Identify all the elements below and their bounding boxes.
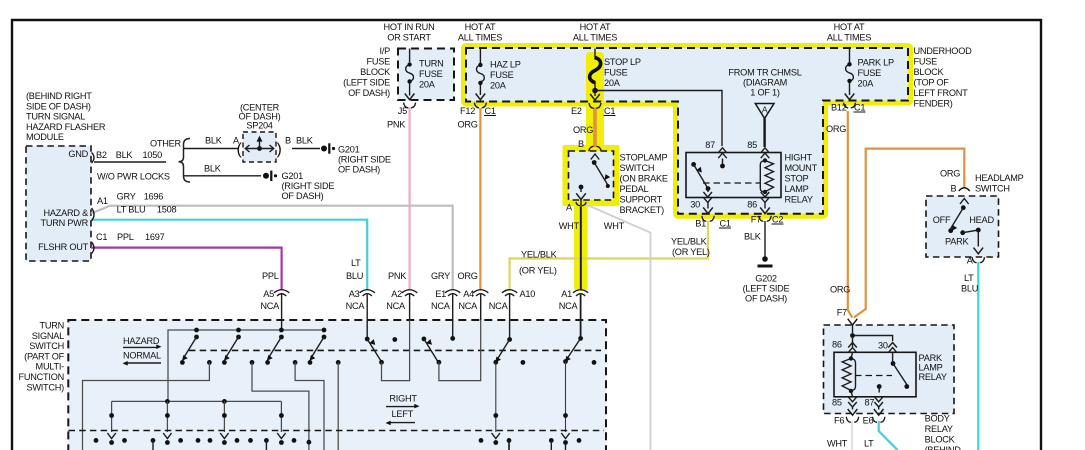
svg-text:STOP LP: STOP LP	[604, 57, 641, 67]
svg-text:FUNCTION: FUNCTION	[19, 372, 64, 382]
park relay pin 87 chevrons and exit	[873, 397, 885, 423]
svg-text:LT: LT	[964, 273, 974, 283]
svg-text:STOPLAMP: STOPLAMP	[620, 153, 668, 163]
svg-text:E1: E1	[435, 289, 446, 299]
svg-text:TURN: TURN	[39, 321, 64, 331]
lower mech dashed line	[69, 430, 605, 432]
svg-text:TURN: TURN	[419, 59, 444, 69]
svg-text:E2: E2	[571, 106, 582, 116]
svg-text:OTHER: OTHER	[150, 139, 182, 149]
svg-text:HEADLAMP: HEADLAMP	[975, 173, 1024, 183]
turn fuse symbol	[405, 49, 415, 100]
svg-text:FUSE: FUSE	[604, 68, 628, 78]
svg-text:SIGNAL: SIGNAL	[32, 331, 64, 341]
svg-text:A3: A3	[349, 289, 360, 299]
svg-text:(PART OF: (PART OF	[24, 351, 64, 361]
svg-text:UNDERHOOD: UNDERHOOD	[914, 46, 973, 56]
svg-text:BLK: BLK	[204, 164, 222, 174]
svg-text:F7: F7	[751, 215, 761, 225]
svg-text:C2: C2	[772, 215, 783, 225]
svg-text:OFF: OFF	[933, 215, 951, 225]
wire WHT stoplamp A diag down	[584, 204, 651, 450]
svg-text:(BEHIND: (BEHIND	[925, 445, 962, 450]
wire stop fuse to relay pin 87	[595, 91, 722, 147]
svg-text:LT: LT	[351, 258, 361, 268]
wire YEL B1 to A10	[510, 221, 708, 291]
svg-text:FUSE: FUSE	[858, 68, 882, 78]
svg-text:(LEFT SIDE: (LEFT SIDE	[743, 284, 790, 294]
svg-text:C1: C1	[96, 232, 107, 242]
svg-text:ORG: ORG	[830, 285, 850, 295]
svg-text:A5: A5	[263, 289, 274, 299]
svg-text:I/P: I/P	[380, 46, 391, 56]
turn selector switch A1	[561, 336, 596, 445]
svg-text:NCA: NCA	[458, 301, 478, 311]
svg-text:ORG: ORG	[458, 120, 478, 130]
relay mech dashed link	[703, 182, 760, 184]
hazard switch 4	[308, 328, 341, 365]
svg-text:A: A	[762, 105, 768, 115]
svg-text:87: 87	[705, 140, 715, 150]
right/left arrows	[386, 404, 420, 425]
hazard mech dashed line	[189, 349, 601, 351]
relay switch contact	[691, 159, 725, 193]
svg-text:HIGHT: HIGHT	[785, 153, 813, 163]
svg-text:A1: A1	[561, 289, 572, 299]
svg-text:ALL TIMES: ALL TIMES	[573, 33, 617, 43]
wire ORG F7 to headlamp switch B	[854, 149, 965, 318]
svg-text:86: 86	[832, 340, 842, 350]
svg-text:F7: F7	[837, 308, 847, 318]
svg-text:PEDAL: PEDAL	[620, 184, 649, 194]
svg-text:ORG: ORG	[940, 169, 960, 179]
headlamp switch internals	[948, 188, 984, 263]
svg-text:NCA: NCA	[431, 301, 451, 311]
svg-text:A4: A4	[463, 289, 474, 299]
from tr chmsl triangle A	[755, 104, 774, 148]
svg-text:FUSE: FUSE	[366, 57, 390, 67]
svg-text:BLK: BLK	[744, 232, 762, 242]
svg-text:NCA: NCA	[386, 301, 406, 311]
svg-text:LEFT FRONT: LEFT FRONT	[914, 88, 969, 98]
svg-text:BLOCK: BLOCK	[360, 67, 391, 77]
svg-text:SWITCH: SWITCH	[29, 341, 64, 351]
svg-text:B: B	[951, 184, 957, 194]
hazard/normal arrows	[123, 344, 162, 365]
bottom contact dots row	[94, 438, 582, 450]
haz lp fuse symbol	[476, 49, 486, 100]
wire WHT stoplamp A to A1 (highlighted)	[580, 200, 582, 291]
svg-text:(RIGHT SIDE: (RIGHT SIDE	[338, 155, 391, 165]
svg-text:SUPPORT: SUPPORT	[620, 195, 663, 205]
svg-text:85: 85	[832, 398, 842, 408]
hazard switch 2	[222, 328, 254, 365]
relay pin 87 chevrons	[718, 148, 727, 158]
svg-text:A1: A1	[97, 196, 108, 206]
svg-text:B: B	[578, 139, 584, 149]
park relay pin 85 chevrons and exit	[846, 397, 858, 423]
wire A1 into turn signal switch	[580, 295, 582, 339]
module GND wire and braces	[94, 139, 335, 183]
svg-text:BLK: BLK	[205, 136, 223, 146]
svg-text:HOT AT: HOT AT	[465, 22, 496, 32]
svg-text:NORMAL: NORMAL	[123, 351, 161, 361]
highlight: stop fuse wire E2 strip	[586, 52, 604, 151]
turn signal switch box	[68, 320, 606, 450]
svg-text:C1: C1	[720, 219, 731, 229]
svg-text:BLU: BLU	[346, 271, 363, 281]
svg-text:J5: J5	[398, 106, 407, 116]
stoplamp switch internals	[576, 146, 610, 205]
connector A10 NCA	[502, 290, 517, 340]
svg-text:BODY: BODY	[925, 414, 950, 424]
module pin brackets	[92, 153, 95, 254]
wire PNK J5 to A2	[409, 108, 411, 291]
svg-text:BLK: BLK	[296, 136, 314, 146]
svg-text:HOT IN RUN: HOT IN RUN	[384, 22, 435, 32]
svg-text:(DIAGRAM: (DIAGRAM	[743, 78, 787, 88]
svg-text:OF DASH): OF DASH)	[348, 88, 390, 98]
svg-text:(OR YEL): (OR YEL)	[672, 247, 710, 257]
svg-text:BLOCK: BLOCK	[914, 67, 945, 77]
svg-text:WHT: WHT	[604, 221, 625, 231]
turn selector switch A3-A2	[365, 320, 410, 381]
svg-text:ORG: ORG	[573, 125, 593, 135]
connector A3 NCA	[360, 290, 375, 339]
svg-text:GRY: GRY	[431, 271, 450, 281]
svg-text:MODULE: MODULE	[26, 132, 64, 142]
svg-text:ORG: ORG	[458, 271, 478, 281]
svg-text:RELAY: RELAY	[785, 195, 813, 205]
relay pin 85 chevrons	[761, 148, 770, 158]
svg-text:OF DASH): OF DASH)	[239, 112, 281, 122]
svg-text:PARK LP: PARK LP	[858, 58, 894, 68]
svg-text:A2: A2	[391, 289, 402, 299]
svg-text:86: 86	[747, 200, 757, 210]
underhood fuse block box dashed border	[466, 48, 908, 214]
park relay switch	[877, 353, 909, 393]
svg-text:NCA: NCA	[346, 301, 366, 311]
wire ORG F12 to A4	[479, 108, 481, 290]
svg-text:PNK: PNK	[387, 120, 406, 130]
svg-text:PPL: PPL	[262, 271, 279, 281]
svg-text:(RIGHT SIDE: (RIGHT SIDE	[282, 181, 335, 191]
svg-text:HEAD: HEAD	[969, 215, 994, 225]
svg-text:ORG: ORG	[826, 124, 846, 134]
wire GRY module to E1	[91, 206, 453, 290]
turn selector switch A10	[492, 337, 526, 445]
svg-text:20A: 20A	[490, 81, 507, 91]
svg-text:HAZARD &: HAZARD &	[44, 208, 89, 218]
svg-text:OF DASH): OF DASH)	[282, 191, 324, 201]
svg-text:MULTI-: MULTI-	[36, 362, 65, 372]
svg-text:FUSE: FUSE	[490, 70, 514, 80]
svg-text:GND: GND	[68, 149, 88, 159]
svg-text:GRY: GRY	[117, 192, 136, 202]
svg-text:1696: 1696	[144, 192, 164, 202]
BLK wire to G202 ground	[758, 221, 773, 268]
svg-text:(ON BRAKE: (ON BRAKE	[620, 174, 668, 184]
svg-text:FROM TR CHMSL: FROM TR CHMSL	[728, 68, 801, 78]
svg-text:PARK: PARK	[945, 237, 969, 247]
relay pin 30 chevrons	[703, 192, 712, 202]
svg-text:TURN SIGNAL: TURN SIGNAL	[26, 112, 85, 122]
splice SP204 box	[243, 132, 276, 162]
connector A2 NCA	[402, 290, 417, 320]
svg-text:B12: B12	[831, 103, 847, 113]
svg-text:ALL TIMES: ALL TIMES	[458, 33, 502, 43]
wire LT BLU headlamp A down	[977, 262, 979, 450]
relay pin30 wire to B1	[702, 203, 714, 222]
svg-text:MOUNT: MOUNT	[785, 163, 818, 173]
svg-text:SWITCH): SWITCH)	[26, 382, 64, 392]
svg-text:B1: B1	[695, 219, 706, 229]
svg-text:BRACKET): BRACKET)	[620, 205, 665, 215]
svg-text:NCA: NCA	[260, 301, 280, 311]
svg-text:STOP: STOP	[785, 174, 809, 184]
svg-text:): )	[277, 141, 282, 158]
connector E1 NCA	[445, 290, 460, 339]
headlamp switch box	[926, 196, 999, 257]
svg-text:C1: C1	[485, 106, 496, 116]
wire LT BLU park relay E6 down	[879, 421, 898, 450]
svg-text:G202: G202	[755, 274, 777, 284]
park relay mech dashed link	[855, 375, 892, 377]
connector J5	[404, 103, 416, 108]
svg-text:B: B	[285, 136, 291, 146]
svg-text:30: 30	[878, 341, 888, 351]
svg-text:LT BLU: LT BLU	[117, 205, 146, 215]
svg-text:ALL TIMES: ALL TIMES	[827, 33, 871, 43]
park lamp relay box (body relay block)	[824, 325, 955, 414]
svg-text:G201: G201	[282, 171, 304, 181]
svg-text:RELAY: RELAY	[919, 372, 947, 382]
svg-text:HOT AT: HOT AT	[580, 22, 611, 32]
underlines for C1/C2 labels	[484, 112, 866, 228]
highlight: fuse band + relay extension (yellow)	[466, 48, 908, 214]
splice SP204 internals	[237, 136, 282, 158]
svg-text:(LEFT SIDE: (LEFT SIDE	[343, 78, 390, 88]
svg-text:SIDE OF DASH): SIDE OF DASH)	[26, 101, 91, 111]
svg-text:SWITCH: SWITCH	[620, 163, 655, 173]
svg-text:WHT: WHT	[827, 439, 848, 449]
wire ORG E2 to stoplamp B (bold)	[593, 108, 597, 148]
svg-text:NCA: NCA	[559, 301, 579, 311]
turn signal hazard flasher module box	[26, 146, 91, 261]
svg-text:30: 30	[690, 200, 700, 210]
svg-text:G201: G201	[338, 145, 360, 155]
hight mount stop lamp relay box	[686, 153, 781, 198]
svg-text:SWITCH: SWITCH	[975, 184, 1010, 194]
svg-text:87: 87	[865, 398, 875, 408]
svg-text:(TOP OF: (TOP OF	[914, 78, 950, 88]
relay pin 86 chevrons	[761, 192, 770, 202]
svg-text:(OR YEL): (OR YEL)	[519, 266, 557, 276]
highlight: stoplamp switch box	[563, 145, 620, 206]
svg-text:20A: 20A	[858, 79, 875, 89]
svg-text:RELAY: RELAY	[925, 424, 953, 434]
svg-text:1050: 1050	[143, 150, 163, 160]
svg-text:1697: 1697	[145, 232, 165, 242]
I/P fuse block (turn fuse) box	[398, 49, 454, 101]
svg-text:FLSHR OUT: FLSHR OUT	[38, 242, 88, 252]
svg-text:PPL: PPL	[117, 232, 134, 242]
svg-text:1 OF 1): 1 OF 1)	[750, 88, 780, 98]
svg-text:E6: E6	[863, 416, 874, 426]
svg-text:FENDER): FENDER)	[914, 99, 953, 109]
svg-text:BLK: BLK	[116, 150, 134, 160]
svg-text:LEFT: LEFT	[392, 409, 414, 419]
svg-text:RIGHT: RIGHT	[389, 394, 417, 404]
svg-text:YEL/BLK: YEL/BLK	[521, 250, 558, 260]
svg-text:HOT AT: HOT AT	[834, 22, 865, 32]
wire LT BLU module to A3	[91, 220, 367, 290]
hazard rail	[168, 330, 324, 401]
svg-text:YEL/BLK: YEL/BLK	[671, 237, 708, 247]
park relay coil	[842, 353, 855, 397]
svg-text:LAMP: LAMP	[785, 184, 809, 194]
connector B12/C1	[844, 103, 856, 108]
park relay inner box	[834, 352, 916, 397]
park lamp relay entry F7	[848, 319, 893, 347]
svg-text:1508: 1508	[157, 205, 177, 215]
svg-text:LT: LT	[864, 439, 874, 449]
svg-text:20A: 20A	[604, 78, 621, 88]
svg-text:HAZARD: HAZARD	[123, 336, 160, 346]
E1 stub	[450, 336, 455, 341]
svg-text:WHT: WHT	[559, 221, 580, 231]
svg-text:F12: F12	[460, 106, 475, 116]
svg-text:B2: B2	[96, 150, 107, 160]
svg-text:OF DASH): OF DASH)	[338, 165, 380, 175]
wire ORG B12 to F7	[848, 111, 852, 318]
svg-text:PNK: PNK	[388, 271, 407, 281]
svg-text:BLOCK: BLOCK	[925, 435, 956, 445]
svg-text:SP204: SP204	[246, 121, 272, 131]
highlight: stoplamp A output wire strip	[574, 198, 588, 291]
svg-text:FUSE: FUSE	[419, 69, 443, 79]
svg-text:HAZARD FLASHER: HAZARD FLASHER	[26, 122, 106, 132]
svg-text:85: 85	[747, 140, 757, 150]
wire PPL module to A5	[91, 248, 282, 290]
park relay pin 30 chevrons	[888, 343, 897, 353]
svg-text:FUSE: FUSE	[914, 57, 938, 67]
svg-text:20A: 20A	[419, 80, 436, 90]
svg-text:OR START: OR START	[387, 33, 431, 43]
contact link wires lower	[83, 362, 210, 450]
wire WHT park relay F6 down	[851, 421, 853, 450]
svg-text:NCA: NCA	[489, 301, 509, 311]
park lp fuse symbol	[845, 49, 855, 100]
svg-text:OF DASH): OF DASH)	[745, 294, 787, 304]
hazard switch 1	[180, 328, 212, 365]
svg-text:C1: C1	[604, 106, 615, 116]
stoplamp switch box (blue)	[569, 151, 614, 200]
connector A5 NCA	[274, 290, 289, 330]
svg-text:LAMP: LAMP	[919, 363, 943, 373]
connector A1 NCA	[573, 290, 588, 296]
hazard switch 3	[265, 328, 297, 365]
bus columns with arrows	[107, 401, 115, 445]
svg-text:TURN PWR: TURN PWR	[40, 218, 88, 228]
svg-text:C1: C1	[854, 103, 865, 113]
svg-text:BLU: BLU	[961, 284, 978, 294]
relay pin86 wire to F7/C2	[759, 203, 771, 222]
stop lp fuse symbol (bold)	[590, 49, 601, 101]
svg-text:W/O PWR LOCKS: W/O PWR LOCKS	[97, 172, 170, 182]
svg-text:HAZ LP: HAZ LP	[490, 60, 521, 70]
lower bus bar	[112, 399, 282, 404]
connector F12/C1	[474, 103, 486, 108]
turn selector switch mid-A4	[422, 320, 481, 381]
relay coil	[760, 158, 773, 194]
svg-text:(BEHIND RIGHT: (BEHIND RIGHT	[26, 91, 92, 101]
svg-text:PARK: PARK	[919, 353, 943, 363]
svg-text:F6: F6	[834, 416, 844, 426]
park relay pin 86 chevrons	[848, 343, 857, 353]
connector E2/C1	[589, 103, 601, 108]
connector A4 NCA	[473, 290, 488, 320]
svg-text:A10: A10	[520, 289, 536, 299]
